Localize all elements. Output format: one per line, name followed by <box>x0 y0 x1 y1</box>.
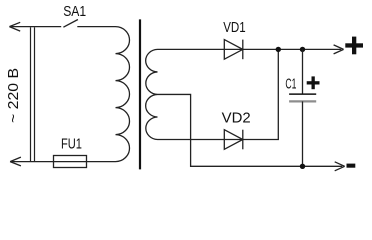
diode VD1 <box>224 40 243 60</box>
wire switch to transformer primary <box>77 26 115 28</box>
wire capacitor top lead <box>302 49 304 94</box>
svg-text:SA1: SA1 <box>63 4 86 20</box>
wire secondary top to VD1 and plus rail <box>158 48 342 50</box>
switch SA1 blade <box>63 20 78 28</box>
wire capacitor bottom lead <box>302 101 304 166</box>
transformer T1 core <box>139 19 141 169</box>
arrow output minus terminal <box>335 162 345 171</box>
wire top-left mains to switch <box>11 26 61 28</box>
arrow mains bottom terminal <box>10 157 21 166</box>
svg-text:FU1: FU1 <box>61 136 82 152</box>
diode VD2 <box>224 130 243 150</box>
svg-text:VD2: VD2 <box>222 111 251 127</box>
arrow mains top terminal <box>9 22 20 31</box>
transformer T1 primary winding <box>116 27 130 162</box>
transformer T1 secondary winding <box>146 49 158 139</box>
capacitor C1 positive plate <box>289 93 316 95</box>
wire center tap to minus rail <box>158 94 343 166</box>
junction dot capacitor branch on plus rail <box>300 47 305 52</box>
capacitor C1 negative plate <box>289 100 316 102</box>
wire secondary bottom through VD2 riser to plus rail <box>158 49 279 139</box>
symbol plus output <box>345 37 363 55</box>
symbol minus output <box>347 164 356 168</box>
fuse FU1 body <box>54 156 87 168</box>
junction dot VD2 riser on plus rail <box>276 47 281 52</box>
arrow output plus terminal <box>334 45 344 54</box>
svg-text:C1: C1 <box>285 75 296 92</box>
mains cable double line <box>31 27 35 161</box>
svg-text:VD1: VD1 <box>223 20 246 36</box>
wire primary bottom to fuse and mains <box>12 161 116 163</box>
junction dot capacitor on minus rail <box>300 164 305 169</box>
symbol plus capacitor polarity <box>307 76 320 89</box>
svg-text:~ 220 В: ~ 220 В <box>6 68 22 123</box>
